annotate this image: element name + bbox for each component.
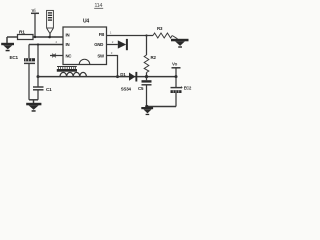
fuse/connector vertical component	[47, 10, 54, 38]
svg-text:U4: U4	[83, 19, 89, 25]
wire GND stub	[107, 44, 118, 46]
svg-text:R1: R1	[19, 30, 25, 36]
page number 114	[94, 3, 103, 9]
terminal Vi	[31, 8, 39, 38]
svg-text:EC1: EC1	[10, 55, 19, 60]
wire bottom-left join	[29, 99, 38, 101]
svg-text:R2: R2	[151, 55, 157, 60]
pin numbers right side	[110, 30, 114, 55]
wire FB bus to R3	[147, 35, 154, 37]
resistor R1	[18, 30, 34, 40]
resistor R3	[153, 26, 178, 39]
wire NC stub with X (no connect)	[50, 54, 63, 58]
svg-text:Vo: Vo	[172, 62, 178, 67]
node FB junction	[145, 34, 147, 36]
resistor R2	[144, 55, 156, 77]
wire FB node down to R2	[146, 36, 148, 56]
svg-text:IN: IN	[66, 42, 70, 47]
wire FB to right bus	[107, 35, 147, 37]
svg-text:NC: NC	[66, 53, 72, 58]
svg-text:C1: C1	[46, 87, 52, 92]
capacitor C1	[33, 77, 52, 100]
svg-text:EC2: EC2	[184, 85, 192, 90]
ground top-right	[171, 39, 189, 48]
svg-text:IN: IN	[66, 32, 70, 37]
terminal Vo	[172, 62, 181, 79]
ground top-left	[1, 37, 14, 51]
svg-text:SS34: SS34	[121, 86, 132, 91]
capacitor EC2	[171, 77, 193, 107]
wire output line (inductor/diode row)	[38, 76, 176, 78]
wire ground to R1	[7, 36, 18, 38]
wire vertical x38 (IN2 to inductor line)	[37, 43, 40, 78]
wire second row (IN2 bus)	[29, 44, 63, 46]
inductor core bars	[57, 67, 77, 72]
inductor winding	[60, 72, 86, 76]
arrow symbol on GND pin	[118, 39, 128, 50]
ground bottom-left	[26, 100, 41, 112]
svg-text:R3: R3	[157, 26, 163, 31]
node output junction left	[145, 75, 148, 78]
svg-text:SW: SW	[97, 53, 105, 58]
diode D1 SS34	[120, 72, 137, 92]
wire R1 to IC pin IN (top bus)	[33, 36, 63, 38]
op-amp U4 (IC box)	[63, 19, 107, 65]
ground bottom-right	[141, 105, 153, 115]
capacitor EC1	[10, 45, 36, 100]
svg-text:D1: D1	[120, 72, 126, 77]
svg-text:FB: FB	[99, 32, 104, 37]
capacitor C5	[138, 77, 152, 107]
svg-text:Vi: Vi	[32, 8, 36, 13]
svg-text:GND: GND	[94, 42, 103, 47]
svg-text:C5: C5	[138, 86, 144, 91]
wire SW stub down to inductor line	[107, 56, 120, 79]
wire bottom-right	[147, 106, 177, 108]
